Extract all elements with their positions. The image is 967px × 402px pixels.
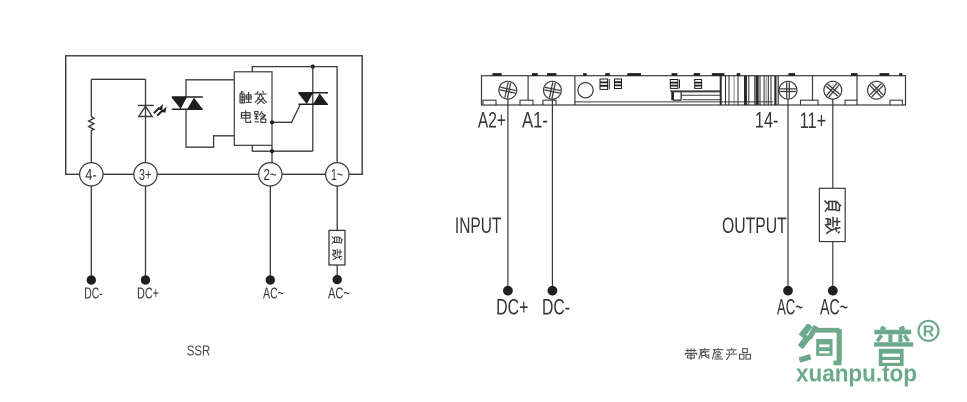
- svg-text:4-: 4-: [85, 167, 96, 184]
- wire: triac gate: [272, 104, 300, 122]
- photo-triac U1 wires: [186, 80, 234, 97]
- node: junction on top wire: [311, 65, 315, 69]
- wire: A1- lead: [551, 99, 553, 291]
- svg-text:xuanpu.top: xuanpu.top: [796, 360, 917, 387]
- node: AC~ dot: [266, 275, 275, 284]
- label: trigger circuit text (chu fa / dian lu): [240, 91, 267, 122]
- node: AC~ dot 2: [828, 286, 838, 296]
- logo registered mark: [919, 321, 939, 341]
- wire: trigger box top to output net: [252, 67, 337, 163]
- svg-text:A1-: A1-: [522, 107, 548, 132]
- terminal 1~: [326, 163, 349, 186]
- svg-text:DC+: DC+: [137, 286, 159, 303]
- labels: DC+/DC-/AC~/AC~: [496, 295, 848, 320]
- svg-text:AC~: AC~: [777, 295, 803, 320]
- load box (small): [329, 230, 345, 265]
- node: DC- dot: [548, 286, 558, 296]
- screw terminal 11+: [822, 79, 844, 101]
- node: AC~ dot: [783, 286, 793, 296]
- wire: 1~ lead down: [336, 186, 338, 280]
- svg-text:INPUT: INPUT: [455, 213, 502, 238]
- node: DC+ dot: [141, 275, 150, 284]
- LED D1: [138, 105, 154, 116]
- LED emission arrows: [154, 108, 163, 116]
- terminal labels: [85, 167, 343, 184]
- svg-text:3+: 3+: [139, 167, 152, 184]
- wire: main triac vertical: [312, 67, 314, 152]
- node: DC+ dot: [503, 286, 513, 296]
- wire: 3+ lead down: [145, 186, 147, 280]
- wire: 4- lead down: [90, 186, 92, 280]
- svg-text:2~: 2~: [264, 167, 277, 184]
- label: load text (fu zai) rotated: [332, 236, 343, 260]
- labels: DC-/DC+/AC~/AC~: [84, 286, 350, 303]
- svg-text:AC~: AC~: [820, 295, 848, 320]
- node: junction above 2~: [270, 149, 274, 153]
- logo char pu (普) green: [874, 327, 913, 366]
- label: socket product text (dai di zuo chan pin): [685, 348, 750, 360]
- svg-text:AC~: AC~: [328, 286, 350, 303]
- resistor R1: [89, 117, 94, 131]
- screw terminal 14-: [779, 81, 797, 99]
- svg-text:OUTPUT: OUTPUT: [722, 213, 787, 238]
- label: load text (fu zai) rotated: [825, 200, 842, 233]
- photo-triac U1 symbol: [172, 97, 203, 109]
- wire: input loop top: [91, 78, 145, 80]
- strip block divisions: [528, 76, 857, 105]
- svg-text:DC-: DC-: [542, 295, 570, 320]
- wire: 11+ lead: [832, 99, 834, 291]
- wire: A2+ lead: [507, 99, 509, 291]
- terminal 4-: [80, 163, 103, 186]
- svg-text:A2+: A2+: [478, 107, 506, 132]
- body detail lines: [670, 90, 720, 92]
- terminal 2~: [259, 163, 282, 186]
- vent slots: [600, 79, 702, 89]
- retainer clip hatch: [721, 76, 776, 105]
- svg-text:14-: 14-: [755, 107, 779, 132]
- screw terminal (spare): [865, 79, 887, 101]
- wire: 14- lead: [787, 99, 789, 291]
- load box (right): [819, 188, 845, 241]
- svg-text:AC~: AC~: [263, 286, 284, 303]
- wire: input loop left vertical (4- up): [90, 79, 92, 162]
- node: DC- dot: [87, 275, 96, 284]
- svg-text:DC-: DC-: [84, 286, 103, 303]
- indicator circle: [578, 83, 593, 98]
- strip inner bottom line: [575, 101, 773, 103]
- screw terminal A1-: [543, 81, 562, 100]
- svg-text:R: R: [923, 324, 935, 341]
- svg-text:DC+: DC+: [496, 295, 528, 320]
- terminal labels A2+/A1-/14-/11+: [478, 107, 826, 133]
- screw terminal A2+: [498, 81, 517, 100]
- terminal 3+: [134, 163, 157, 186]
- trigger circuit box: [234, 72, 272, 146]
- module strip body: [482, 76, 906, 105]
- node: gate junction on box edge: [270, 120, 274, 124]
- wire: 2~ lead down: [269, 186, 271, 280]
- wire: LED branch vertical (3+ up): [145, 79, 147, 162]
- wire: box corner down to 2~: [271, 145, 273, 162]
- svg-text:1~: 1~: [331, 167, 343, 184]
- strip top dashes: [492, 73, 902, 76]
- wire: box bottom jog to triac bottom: [252, 145, 312, 151]
- node: AC~ dot 2: [333, 275, 342, 284]
- svg-text:11+: 11+: [800, 108, 827, 133]
- main triac Q1 symbol: [298, 93, 328, 104]
- svg-text:SSR: SSR: [187, 344, 211, 360]
- strip bottom notches: [483, 100, 902, 105]
- logo char xuan (绚) green: [799, 325, 913, 366]
- SSR outer case box: [66, 56, 363, 175]
